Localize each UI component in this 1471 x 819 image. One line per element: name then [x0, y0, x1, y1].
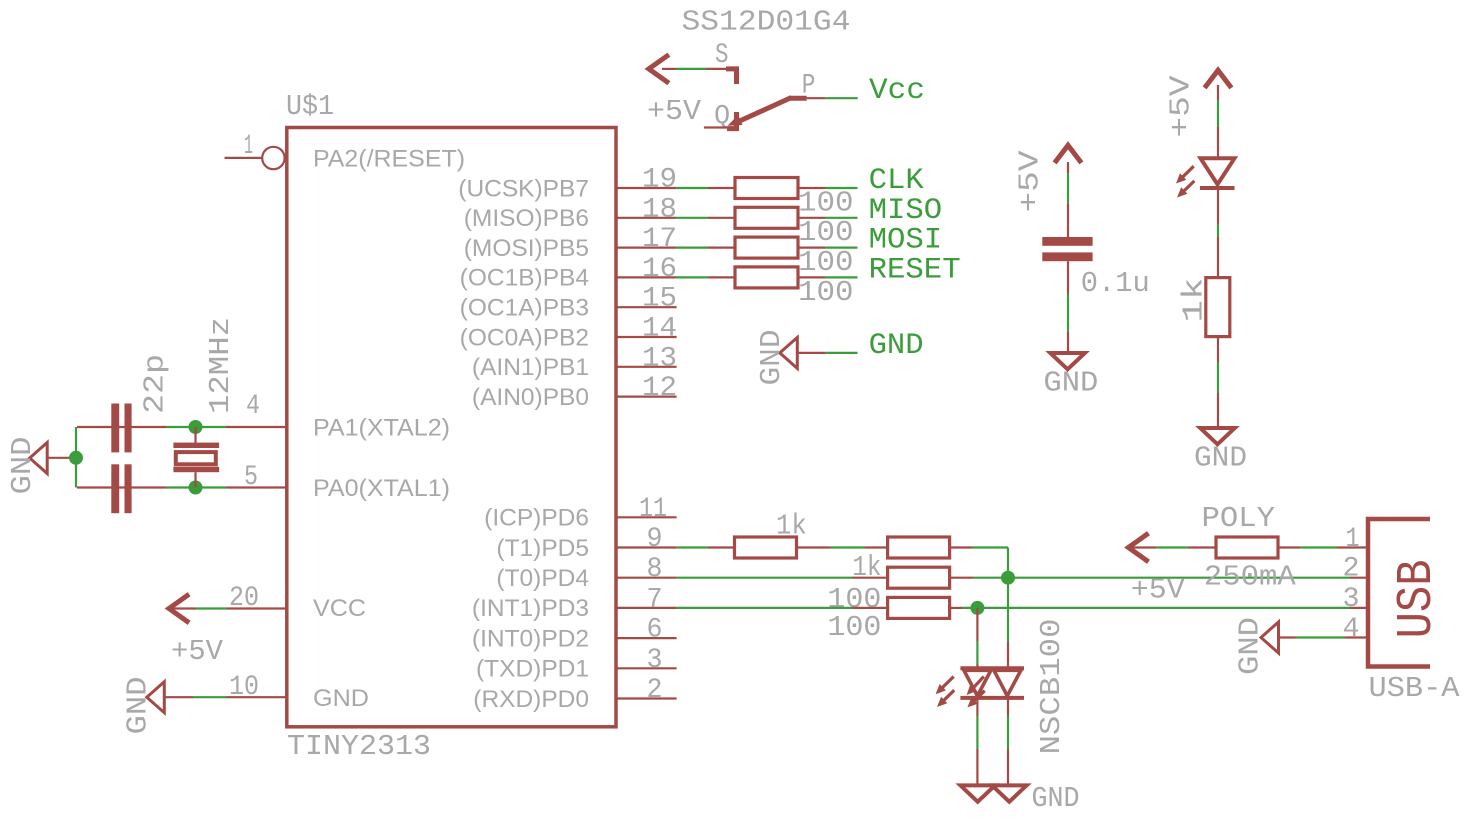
pin number 2 — [647, 675, 663, 706]
IC pin 1 PA2(/RESET) stub with inversion bubble — [225, 147, 285, 169]
svg-text:GND: GND — [755, 330, 788, 386]
value 100 of resistor R1 — [798, 186, 854, 219]
wire R8 to USB pin 3 — [950, 607, 1367, 609]
USB name label (rotated) — [1389, 559, 1446, 638]
pin name (INT1)PD3 — [472, 595, 589, 622]
svg-text:PA2(/RESET): PA2(/RESET) — [313, 146, 465, 173]
ground symbol under R9 — [1200, 428, 1235, 444]
pin name (TXD)PD1 — [476, 656, 589, 683]
svg-text:15: 15 — [642, 284, 677, 315]
svg-text:GND: GND — [869, 329, 924, 363]
pin name (AIN1)PB1 — [472, 354, 589, 381]
junction pin 7 net — [970, 601, 984, 615]
wire to switch pin S — [662, 68, 730, 70]
LED D2 — [1200, 158, 1235, 188]
ground symbol at USB pin 4 — [1261, 622, 1279, 653]
resistor R8 100 — [888, 597, 950, 618]
svg-text:100: 100 — [798, 276, 854, 309]
svg-text:(AIN1)PB1: (AIN1)PB1 — [472, 354, 589, 381]
pin number 16 — [642, 254, 677, 285]
USB pin number 2 — [1343, 554, 1360, 585]
svg-text:0.1u: 0.1u — [1081, 267, 1150, 300]
svg-text:14: 14 — [642, 314, 677, 345]
resistor R1 100 on CLK line — [735, 178, 798, 199]
IC pin 16 stub — [616, 276, 676, 278]
wire R9 to ground — [1217, 337, 1219, 429]
GND label at pin 10 (rotated) — [122, 677, 155, 735]
svg-text:POLY: POLY — [1202, 502, 1276, 535]
GND label left (rotated) — [6, 437, 39, 495]
+5V label at pin 20 — [171, 635, 224, 668]
svg-text:GND: GND — [1032, 782, 1080, 815]
svg-text:PA1(XTAL2): PA1(XTAL2) — [313, 415, 450, 442]
GND label gray (rotated) — [755, 330, 788, 386]
+5V label at C3 (rotated) — [1014, 150, 1047, 213]
svg-text:12: 12 — [642, 373, 677, 404]
wire resistor to net label MISO — [798, 217, 858, 219]
pin name (OC1A)PB3 — [460, 295, 589, 322]
IC U1 name label U$1 — [286, 90, 334, 123]
pin number 18 — [642, 194, 677, 225]
wire pin 9 to resistor R5 — [677, 546, 735, 548]
svg-text:S: S — [715, 40, 729, 71]
switch S terminal bracket — [726, 69, 737, 84]
svg-text:RESET: RESET — [869, 253, 961, 287]
wire LED right cathode to ground — [1007, 697, 1009, 785]
net label MISO — [869, 194, 943, 228]
wire pin 17 to resistor — [676, 247, 735, 249]
svg-text:13: 13 — [642, 343, 677, 374]
svg-text:(INT0)PD2: (INT0)PD2 — [472, 625, 589, 652]
svg-text:1: 1 — [244, 131, 253, 162]
wire R5 to R6 — [797, 546, 888, 548]
svg-text:11: 11 — [639, 494, 667, 525]
IC pin 19 stub — [616, 187, 676, 189]
IC U1 value label TINY2313 — [287, 730, 431, 763]
svg-text:2: 2 — [647, 675, 663, 706]
resistor R3 100 on MOSI line — [735, 237, 798, 258]
fuse F1 POLY — [1216, 537, 1278, 558]
wire VCC pin 20 — [166, 607, 286, 609]
junction pin 8 net — [1001, 571, 1015, 585]
IC pin 14 stub (unconnected) — [616, 336, 677, 338]
pin number 9 — [647, 524, 663, 555]
+5V supply arrow above C3 — [1055, 145, 1082, 163]
svg-text:(T1)PD5: (T1)PD5 — [496, 535, 589, 562]
svg-text:100: 100 — [798, 246, 854, 279]
pin number 20 — [229, 583, 259, 614]
svg-text:4: 4 — [246, 391, 260, 422]
pin name (INT0)PD2 — [472, 625, 589, 652]
svg-text:8: 8 — [647, 554, 663, 585]
wire resistor to net label RESET — [798, 276, 858, 278]
svg-text:Vcc: Vcc — [869, 74, 925, 108]
pin number 10 — [229, 672, 259, 703]
svg-text:(OC1B)PB4: (OC1B)PB4 — [460, 265, 589, 292]
pin number 4 — [246, 391, 260, 422]
value 100 of resistor R4 — [798, 276, 854, 309]
wire XTAL2 pin 4 — [77, 426, 286, 428]
svg-text:GND: GND — [6, 437, 39, 495]
svg-text:3: 3 — [647, 645, 663, 676]
svg-text:1k: 1k — [852, 551, 881, 584]
value 1k of resistor R5 — [776, 510, 807, 543]
pin name (MISO)PB6 — [464, 205, 589, 232]
+5V supply arrow on USB power net — [1128, 533, 1148, 562]
pin number 5 — [244, 462, 258, 493]
pin name (T0)PD4 — [496, 565, 589, 592]
+5V label at D2 (rotated) — [1165, 75, 1198, 138]
pin name PA1(XTAL2) — [313, 415, 450, 442]
svg-text:1: 1 — [1346, 524, 1360, 555]
wire +5V to C3 — [1067, 162, 1069, 237]
pin number 19 — [642, 165, 677, 196]
ground symbol under C3 — [1050, 353, 1085, 369]
GND label at USB pin 4 (rotated) — [1234, 617, 1267, 675]
switch name SS12D01G4 — [682, 6, 851, 39]
wire down to LED right anode — [1007, 578, 1009, 669]
svg-text:250mA: 250mA — [1204, 561, 1297, 594]
svg-text:(OC0A)PB2: (OC0A)PB2 — [460, 324, 589, 351]
svg-text:+5V: +5V — [1165, 75, 1198, 138]
pin name GND — [313, 685, 369, 712]
ground rail wire left of capacitors — [75, 427, 77, 488]
svg-text:(T0)PD4: (T0)PD4 — [496, 565, 589, 592]
IC pin 2 stub — [616, 697, 677, 699]
pin name (OC0A)PB2 — [460, 324, 589, 351]
wire fuse F1 to USB pin 1 — [1278, 546, 1337, 548]
pin name VCC — [313, 595, 366, 622]
svg-text:100: 100 — [798, 186, 854, 219]
resistor R2 100 on MISO line — [735, 207, 798, 228]
pin name (UCSK)PB7 — [458, 175, 589, 202]
crystal Q1 12MHz — [173, 427, 219, 488]
svg-text:2: 2 — [1343, 554, 1360, 585]
junction on ground rail — [69, 451, 83, 465]
svg-text:18: 18 — [642, 194, 677, 225]
svg-text:TINY2313: TINY2313 — [287, 730, 431, 763]
pin number 8 — [647, 554, 663, 585]
resistor R4 100 on RESET line — [735, 267, 798, 288]
pin number 14 — [642, 314, 677, 345]
GND label under LED — [1032, 782, 1080, 815]
ground symbol at GND net label — [780, 337, 798, 368]
USB pin 1 stub — [1337, 546, 1367, 548]
IC pin 9 stub — [616, 546, 677, 548]
junction XTAL1 node — [189, 481, 203, 495]
net label MOSI — [869, 224, 943, 258]
resistor R6 1k — [888, 537, 950, 558]
+5V supply arrow at pin 20 — [169, 594, 189, 623]
svg-text:GND: GND — [1043, 366, 1098, 399]
wire R6 to corner — [950, 546, 1008, 548]
IC pin 13 stub (unconnected) — [616, 366, 677, 368]
svg-text:P: P — [802, 71, 816, 102]
svg-text:10: 10 — [229, 672, 259, 703]
net label GND — [869, 329, 924, 363]
+5V label at switch — [647, 95, 702, 128]
GND label under C3 — [1043, 366, 1098, 399]
switch P terminal bar — [789, 96, 807, 101]
wire C3 to ground — [1067, 261, 1069, 353]
svg-text:100: 100 — [827, 611, 881, 644]
svg-text:GND: GND — [122, 677, 155, 735]
switch Q1 lever — [727, 98, 791, 129]
svg-text:1k: 1k — [776, 510, 807, 543]
wire pin 19 to resistor — [676, 187, 735, 189]
svg-text:12MHz: 12MHz — [204, 317, 237, 414]
resistor R9 1k vertical — [1206, 278, 1230, 337]
pin number 3 — [647, 645, 663, 676]
net label Vcc — [869, 74, 925, 108]
fuse name POLY — [1202, 502, 1276, 535]
wire +5V arrow to fuse F1 — [1126, 546, 1216, 548]
svg-text:3: 3 — [1343, 584, 1360, 615]
IC pin 15 stub (unconnected) — [616, 306, 677, 308]
USB pin number 4 — [1343, 614, 1360, 645]
pin name (AIN0)PB0 — [472, 384, 589, 411]
value 12MHz (rotated) — [204, 317, 237, 414]
wire XTAL1 pin 5 — [77, 486, 286, 488]
svg-text:100: 100 — [798, 216, 854, 249]
USB pin number 1 — [1346, 524, 1360, 555]
pin number 13 — [642, 343, 677, 374]
svg-text:PA0(XTAL1): PA0(XTAL1) — [313, 475, 450, 502]
capacitor C2 22p bottom — [111, 464, 131, 513]
wire GND pin 10 — [164, 696, 286, 698]
wire pin 16 to resistor — [676, 276, 735, 278]
wire resistor to net label CLK — [798, 187, 858, 189]
dual LED D1 NSCB100 — [960, 668, 1024, 698]
wire LED left cathode to ground — [976, 697, 978, 785]
svg-text:(AIN0)PB0: (AIN0)PB0 — [472, 384, 589, 411]
svg-text:(OC1A)PB3: (OC1A)PB3 — [460, 295, 589, 322]
resistor R7 100 — [888, 567, 950, 588]
svg-text:(MISO)PB6: (MISO)PB6 — [464, 205, 589, 232]
IC pin 18 stub — [616, 217, 676, 219]
value 100 of resistor R7 — [827, 583, 881, 616]
capacitor C3 0.1u — [1042, 237, 1092, 261]
pin name PA2(/RESET) — [313, 146, 465, 173]
pin number 17 — [642, 224, 677, 255]
wire pin 18 to resistor — [676, 217, 735, 219]
svg-text:+5V: +5V — [1014, 150, 1047, 213]
pin name (OC1B)PB4 — [460, 265, 589, 292]
svg-text:6: 6 — [647, 615, 663, 646]
svg-text:SS12D01G4: SS12D01G4 — [682, 6, 851, 39]
IC pin 11 stub — [616, 516, 677, 518]
LED D1 emission arrows — [936, 677, 985, 708]
pin name (RXD)PD0 — [473, 686, 589, 713]
pin name (T1)PD5 — [496, 535, 589, 562]
+5V supply arrow above LED D2 — [1205, 70, 1232, 88]
svg-text:19: 19 — [642, 165, 677, 196]
svg-text:+5V: +5V — [171, 635, 224, 668]
svg-text:(INT1)PD3: (INT1)PD3 — [472, 595, 589, 622]
switch pin label Q — [714, 101, 730, 132]
switch pin label P — [802, 71, 816, 102]
wire +5V to LED D2 — [1217, 85, 1219, 158]
ground symbol left of crystal caps — [30, 443, 48, 474]
pin name (ICP)PD6 — [484, 505, 589, 532]
svg-text:GND: GND — [1234, 617, 1267, 675]
USB pin 4 ground wire — [1278, 636, 1367, 638]
wire switch Q terminal — [704, 126, 734, 128]
svg-text:(MOSI)PB5: (MOSI)PB5 — [464, 235, 589, 262]
pin number 12 — [642, 373, 677, 404]
svg-text:GND: GND — [1194, 442, 1247, 475]
svg-text:16: 16 — [642, 254, 677, 285]
svg-text:GND: GND — [313, 685, 369, 712]
svg-text:U$1: U$1 — [286, 90, 334, 123]
USB value label USB-A — [1369, 672, 1461, 705]
pin number 7 — [647, 584, 663, 615]
IC pin 3 stub — [616, 667, 677, 669]
svg-text:22p: 22p — [139, 354, 172, 414]
+5V supply arrow at switch S — [649, 55, 669, 84]
value 100 of resistor R2 — [798, 216, 854, 249]
resistor R5 1k — [735, 537, 797, 558]
value 1k of R9 (rotated) — [1178, 278, 1211, 323]
LED D2 emission arrows — [1176, 166, 1194, 197]
fuse value 250mA — [1204, 561, 1297, 594]
value 1k of resistor R6 — [852, 551, 881, 584]
ground symbol at pin 10 — [147, 682, 165, 713]
net label CLK — [869, 164, 924, 198]
svg-text:(TXD)PD1: (TXD)PD1 — [476, 656, 589, 683]
pin number 15 — [642, 284, 677, 315]
pin name PA0(XTAL1) — [313, 475, 450, 502]
value 100 of resistor R3 — [798, 246, 854, 279]
ground symbol right under LED — [992, 785, 1027, 801]
IC U1 ATtiny2313 body — [287, 128, 616, 727]
svg-text:USB-A: USB-A — [1369, 672, 1461, 705]
wire LED D2 to resistor R9 — [1217, 189, 1219, 278]
value 0.1u — [1081, 267, 1150, 300]
IC pin 6 stub — [616, 637, 677, 639]
wire corner down to pin 8 net — [1007, 548, 1009, 578]
wire pin 7 to resistor R8 — [677, 607, 888, 609]
wire pin 8 to resistor R7 — [677, 577, 888, 579]
svg-text:(RXD)PD0: (RXD)PD0 — [473, 686, 589, 713]
value 22p (rotated) — [139, 354, 172, 414]
svg-text:4: 4 — [1343, 614, 1360, 645]
net label RESET — [869, 253, 961, 287]
svg-text:+5V: +5V — [647, 95, 702, 128]
pin number 11 — [639, 494, 667, 525]
value 100 of resistor R8 — [827, 611, 881, 644]
LED name NSCB100 (rotated) — [1035, 619, 1068, 755]
svg-text:7: 7 — [647, 584, 663, 615]
IC pin 12 stub (unconnected) — [616, 396, 677, 398]
pin number 1 — [244, 131, 253, 162]
USB connector J1 body bracket — [1368, 519, 1430, 667]
IC pin 7 stub — [616, 607, 677, 609]
wire R7 to USB pin 2 — [950, 577, 1367, 579]
wire resistor to net label MOSI — [798, 247, 858, 249]
svg-text:(ICP)PD6: (ICP)PD6 — [484, 505, 589, 532]
svg-text:9: 9 — [647, 524, 663, 555]
pin name (MOSI)PB5 — [464, 235, 589, 262]
GND label under R9 — [1194, 442, 1247, 475]
svg-text:USB: USB — [1389, 559, 1446, 638]
+5V label on USB power net — [1131, 573, 1186, 606]
ground symbol left under LED — [960, 785, 995, 801]
pin number 6 — [647, 615, 663, 646]
wire switch P to Vcc — [807, 97, 858, 99]
svg-text:1k: 1k — [1178, 278, 1211, 323]
wire from ground symbol to rail — [47, 457, 70, 459]
switch pin label S — [715, 40, 729, 71]
svg-text:17: 17 — [642, 224, 677, 255]
junction XTAL2 node — [189, 420, 203, 434]
wire down to LED left anode — [976, 608, 978, 669]
USB pin number 3 — [1343, 584, 1360, 615]
IC pin 17 stub — [616, 247, 676, 249]
svg-text:VCC: VCC — [313, 595, 366, 622]
wire to GND net label — [797, 352, 857, 354]
capacitor C1 22p top — [111, 404, 131, 453]
svg-text:+5V: +5V — [1131, 573, 1186, 606]
svg-text:NSCB100: NSCB100 — [1035, 619, 1068, 755]
IC pin 8 stub — [616, 577, 677, 579]
svg-text:(UCSK)PB7: (UCSK)PB7 — [458, 175, 589, 202]
